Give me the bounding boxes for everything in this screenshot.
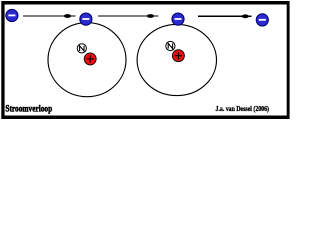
wire arrow 3 [198,14,252,18]
svg-text:J.a. van Dessel (2006): J.a. van Dessel (2006) [216,104,270,113]
svg-text:Stroomverloop: Stroomverloop [5,105,52,115]
wire arrow 2 [98,14,159,18]
electron e2 [80,13,92,25]
atom shell 2 [137,24,216,95]
neutron symbol n2 [166,41,175,50]
electron e1 [6,9,18,21]
electron e4 [256,14,268,26]
electron e3 [172,13,184,25]
atom shell 1 [48,23,126,97]
neutron symbol n1 [77,44,86,53]
proton ion p1 [84,53,96,65]
wire arrow 1 [23,14,76,18]
border frame [1,1,289,119]
proton ion p2 [172,50,184,62]
